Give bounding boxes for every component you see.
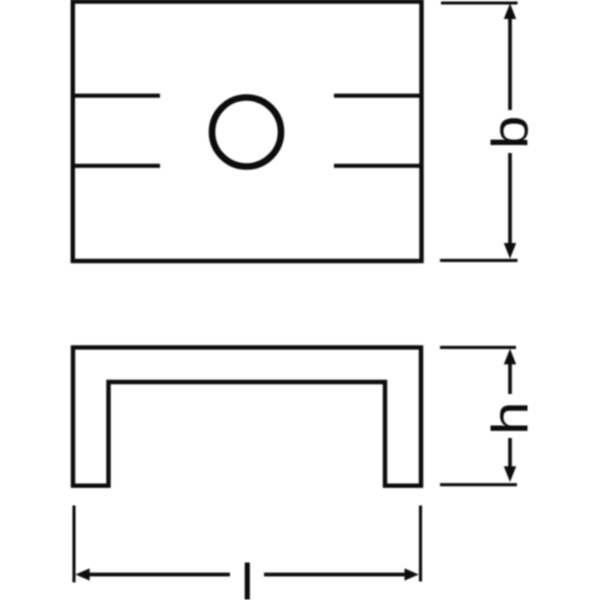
svg-text:h: h [482,402,539,435]
svg-text:l: l [241,553,254,600]
svg-text:b: b [482,116,539,149]
